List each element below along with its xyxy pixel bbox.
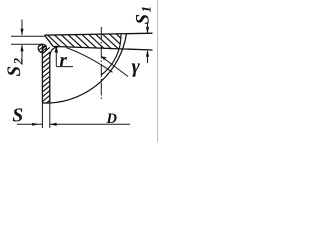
label S1 subscript 1 (rotated) [142,7,151,12]
label gamma (flare angle) [132,63,140,76]
big outer arc [50,34,127,103]
scan edge artifact [157,0,159,142]
label r (radius) [60,57,67,66]
fillet radius r [50,47,58,57]
bottom dimension S and D [17,123,130,125]
label D (diameter) [106,114,116,124]
centerline dash-dot [100,27,102,101]
vertical bar contour [42,44,49,103]
top plate contour [45,33,153,50]
hatching of top plate [41,29,153,55]
hatching of vertical bar [40,36,52,108]
label S2 letter S (rotated) [7,67,20,76]
label S1 letter S (rotated) [136,15,149,24]
label S (plate thickness) [13,108,23,121]
r leader [56,47,73,67]
label S2 subscript 2 (rotated) [14,58,23,64]
flanged tip bulge [35,40,48,56]
gamma construction lines [67,48,113,73]
inner arc [101,34,121,75]
S2 dimension (left) [11,20,45,62]
S1 dimension (right) [147,24,149,63]
